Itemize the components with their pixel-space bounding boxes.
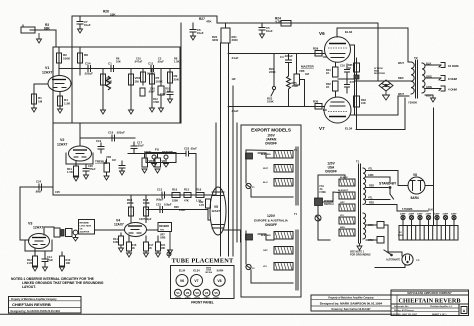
tube V5 12AX7 [210,187,226,235]
wire vertical bus D [232,86,234,256]
capacitor CE2 [409,215,413,240]
capacitor C22fx [183,151,192,156]
wire V7 plate to OT [355,96,410,115]
resistor R33 [354,58,360,130]
wire left drop [19,187,21,240]
fuse FS1 circle [315,215,321,221]
ground (VR2) [104,176,109,180]
resistor R8 100K [78,47,83,75]
T2 secondary winding [422,63,425,93]
capacitor dark blob [61,230,64,237]
pot VR1 [129,69,134,111]
capacitor C18 [112,135,115,141]
ground (R4) [58,109,63,113]
wire usa hot [318,175,330,240]
resistor R11 cathode [74,161,79,176]
wire japan bottom [251,189,293,197]
wire sec HT bot [366,205,397,212]
pot VR3 MIDDLE [142,153,148,167]
T2 primary winding [411,62,414,94]
resistor R6 [141,69,146,86]
wire V1 top rail [53,46,180,48]
capacitor C23b [160,207,163,213]
wire pilot upper [366,224,377,226]
wire volume feed [20,186,53,188]
wire V8 cathode bottom [397,210,428,212]
ground (C5) [260,34,265,38]
wire standby out [389,177,391,183]
resistor R21c [156,236,161,251]
wire japan links [246,149,274,152]
wire plate row [59,68,181,70]
pot VR6 MASTER [294,54,305,107]
ground (R12) [33,267,38,271]
wire V8 plate left [398,179,408,186]
capacitor C11 [151,66,154,72]
wire V3 plate [44,227,54,235]
ground (bias) [383,91,390,100]
switch SW eu [246,234,253,240]
resistor R16c [127,236,132,251]
wire common tap [425,95,433,98]
socket V5 [213,289,220,296]
wire vertical bus B [220,43,222,256]
resistor R35 [354,63,360,72]
wire grid V1 [34,83,48,85]
wire V7 plate stub [350,114,355,116]
wire long lower rail [53,194,216,196]
wire 4ohm tap [425,88,441,90]
socket V1 [175,289,182,296]
bridge rectifier D1 diamond [379,80,393,91]
capacitor C5 [259,23,265,34]
capacitor C16v [39,184,42,190]
winding U2 [339,192,355,199]
wire OT drop [407,28,409,62]
reverb recovery box TR1 [158,223,172,232]
capacitor CE1 [401,215,405,240]
ground (VR3) [142,169,147,173]
wire usa top [318,175,345,179]
winding U4 [339,217,355,224]
capacitor C13s on rail [162,192,165,198]
resistor R29 grid stopper [315,51,322,57]
resistor R32 screen [333,81,339,97]
capacitor C26 box [54,228,60,237]
reverb tank box [79,220,95,235]
switch SW2 lollipop [271,86,276,96]
capacitor CE5 [435,215,439,240]
resistor R22 220K [273,54,275,87]
wire primary top [408,61,411,63]
winding U3 [339,204,355,211]
right title box [391,290,469,316]
socket V3 [194,289,201,296]
ground (C21) [120,171,125,175]
resistor R16s on rail [172,193,180,198]
winding U5 [339,229,355,236]
capacitor C7 [77,16,83,29]
switch SW japan [246,153,253,159]
wire V7 grid rail [229,106,325,108]
capacitor C24 [88,66,91,72]
wire V6 top stub [336,28,338,37]
wire V4 to reverb box [147,229,159,231]
wire export internal links a [258,153,274,158]
fuse F japan [246,183,251,188]
resistor R19 plate [129,195,134,223]
wire plate side vertical [354,45,356,115]
board box outline [53,47,180,123]
capacitor C17 [345,79,350,93]
ground (VR4) [155,169,160,173]
ground (R13b) [60,267,65,271]
wire V3 grid [20,239,29,241]
resistor R7 [150,69,155,109]
capacitor C30 blob [354,75,359,79]
box FX jacks [146,153,176,163]
ground (fx send) [152,164,157,168]
capacitor C6 [190,23,196,36]
resistor R1 1M [32,84,37,108]
socket V6 [176,275,188,287]
resistor R9 [168,69,173,91]
socket V2 [184,289,191,296]
ground (R21c) [156,251,161,257]
capacitor C17fx [131,142,137,154]
wire japan hot [245,150,247,183]
resistor R5 [101,69,106,111]
capacitor CE4 [426,215,430,240]
wire V2 plate feed [79,123,81,146]
wire export internal links b [258,234,274,240]
wire B+ to OT [356,98,405,130]
wire usa links [323,192,340,202]
wire 8ohm tap [425,77,441,79]
wire vertical bus A [180,23,182,123]
right title rev cell [461,307,467,314]
capacitor C4 [274,54,292,69]
pot VR4 BASS [155,153,161,167]
wire fx to bus [192,154,196,196]
T2 core [416,60,418,98]
resistor R14 [119,233,124,245]
wire eu links [245,231,247,264]
wire tank to V4 [95,229,125,231]
capacitor C15 [345,64,350,78]
wire rail to V5 [215,187,217,195]
wire V6 grid rail [229,53,325,55]
ground (C6) [191,36,196,40]
AC receptacle P1 [402,254,413,265]
socket V8 [214,275,225,286]
wire fx row [128,153,186,155]
wire V6 plate rail [337,27,408,29]
mid title box [311,295,391,311]
winding P3 eu [274,263,293,271]
switch standby [389,187,393,199]
ground (jack sleeve) [37,33,42,43]
wire eu bottom [251,270,293,283]
ground (C12) [168,97,173,103]
ground (R16c) [127,251,132,257]
tube V8 5AR4 [408,177,425,194]
switch SW usa [315,198,323,206]
resistor R12 [33,249,38,267]
wire bias drop [377,23,379,81]
wire V5 out bottom [223,230,241,242]
wire V5 grid joint [207,209,208,211]
socket V4 [203,289,210,296]
resistor R17 [144,236,149,251]
capacitor C19 [98,143,104,153]
filter cap bank top bus [399,225,458,227]
left title box [9,297,82,314]
sheet bottom rule [0,313,392,315]
winding P2 japan [274,165,293,173]
wire AC bottom [375,265,405,268]
capacitor C20 [83,164,89,175]
ground (R10m) [159,108,164,112]
resistor R25 zigzag [287,68,291,107]
resistor R22b side box [206,199,211,220]
T1 secondary winding upper [363,168,366,204]
box V3 socket outline [25,240,52,251]
wire screens joiner [338,78,355,80]
input jack J1 [21,25,35,33]
wire drop to V1 [71,16,73,123]
jack FX send [152,155,156,161]
wire box leg [52,123,54,195]
wire sec 5v a [366,176,390,178]
ground (R17) [144,251,149,257]
wire V2 output [80,137,135,139]
winding P3 japan [274,179,293,187]
ground (C20) [84,175,89,179]
wire sec 5v b [366,199,390,201]
socket V7 [191,275,203,287]
node PI out lower [228,106,230,108]
ground (R11) [74,177,79,181]
tube V1 12AX7 [48,76,71,92]
resistor R2 100K [57,47,62,75]
resistor R30 grid stopper [315,104,322,110]
resistor R5b zigzag [106,76,111,90]
resistor R24 box [281,21,291,27]
tube V2 12AX7 [69,146,92,161]
ground (R7) [150,108,155,112]
ground (fx return) [164,164,169,168]
ground (R1) [32,108,37,112]
ground (R14) [119,245,124,252]
resistor R31 screen [333,62,339,77]
wire bus to V5 top [215,123,217,187]
resistor R20/R21 box [221,23,230,43]
box V2 socket outline [66,153,93,164]
T1 main core [359,164,361,243]
winding P2 eu [274,247,293,255]
ground (reverb box) [168,232,173,255]
winding P1 eu [274,232,293,240]
wire NFB vertical [433,108,435,226]
tube placement box [171,266,235,299]
wire 16ohm tap [425,64,441,66]
capacitor C12 [167,90,173,97]
capacitor C10m [140,88,145,96]
wire pilot lower [366,239,377,241]
resistor R4 cathode [58,92,63,110]
wire B+ down [433,186,435,205]
tube V7 EL34 [324,97,351,123]
node PI out upper [228,53,230,55]
capacitor CE3 [418,215,422,240]
fuse F eu [246,264,251,269]
wire sec ct [366,187,388,189]
jack FX return [164,155,168,161]
resistor R18s on rail [196,193,204,198]
wire V6 plate stub [350,44,355,46]
pilot lamp box lower [377,237,384,244]
capacitor C21 [119,161,125,171]
jack RCA reverb out [73,230,78,237]
filter cap bank bottom bus [399,239,458,241]
T1 core lines (japan) [296,147,298,205]
tube V6 EL34 [325,37,351,63]
wire V8 plate right [425,185,434,187]
wire top rail [72,16,378,23]
capacitor C1 [111,66,114,72]
scan noise overlay [0,0,1,1]
wire center tap B+ [355,80,412,82]
switch AC arm [384,250,392,256]
export box outline [241,125,301,297]
winding P1 japan [274,151,293,159]
capacitor C14b [42,252,48,267]
wire AC top [388,252,402,256]
ground (speaker common) [431,98,436,102]
jack 8 OHM [439,76,445,81]
ground (C7) [78,29,83,33]
wire V4 out row [146,209,207,211]
jack 4 OHM [439,86,445,91]
resistor R10m [158,69,164,109]
ground (T1 frame) [357,243,362,250]
resistor R18b plate [144,195,149,223]
ground symbol fiducial [167,251,171,258]
ground (C14b) [43,267,48,271]
wire vertical bus E [236,123,238,242]
wire vertical bus C [228,43,230,256]
resistor R13b [60,252,65,266]
wire pilot join [384,225,388,252]
capacitor CE6 [443,215,447,240]
wire sec HT top [366,171,398,180]
wire jack to node [35,30,72,47]
ground (RCA) [73,238,78,242]
ground (VR1) [129,110,134,114]
pilot lamp box upper [377,222,384,229]
winding U1 [339,179,355,186]
tube V3 12AX7 [29,234,50,249]
cap bank cell dividers [399,226,458,241]
jack 16 OHM [439,63,445,68]
T1 secondary winding lower [363,213,366,239]
T1 core lines (eu) [296,230,298,290]
tube V4 12AX7 [125,223,147,237]
resistor R34 box [66,229,73,237]
ground (R5) [101,110,106,114]
capacitor CE7 [452,215,456,240]
resistor R15s on rail [184,193,191,198]
